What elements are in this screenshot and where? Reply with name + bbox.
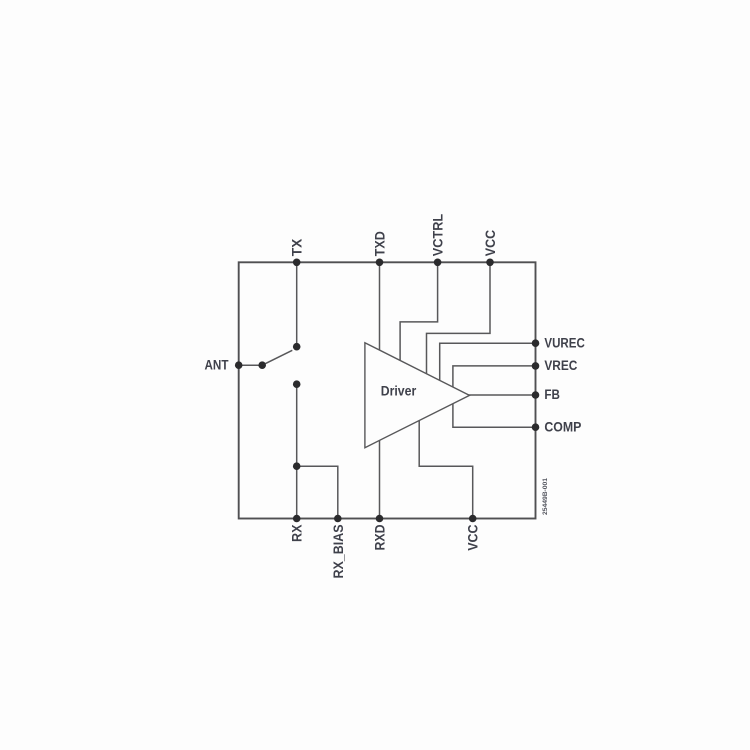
svg-text:ANT: ANT [205,358,230,373]
svg-text:RX: RX [290,525,305,543]
svg-text:VREC: VREC [544,358,577,373]
svg-text:25449B-001: 25449B-001 [543,477,549,515]
svg-text:RX_BIAS: RX_BIAS [331,525,346,579]
svg-text:TXD: TXD [373,231,388,256]
svg-text:COMP: COMP [544,419,581,434]
svg-text:FB: FB [544,387,560,402]
svg-text:VCC: VCC [466,524,481,551]
svg-text:Driver: Driver [381,384,417,399]
svg-text:TX: TX [290,239,305,257]
svg-text:VUREC: VUREC [544,335,585,350]
svg-text:VCTRL: VCTRL [431,214,446,256]
svg-text:RXD: RXD [373,524,388,550]
svg-text:VCC: VCC [483,230,498,257]
